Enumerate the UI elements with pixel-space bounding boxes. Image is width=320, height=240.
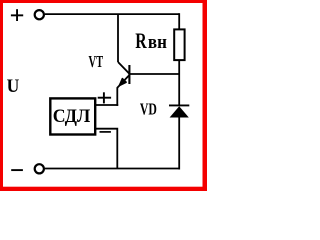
input terminal (-) circle [35,164,44,173]
border frame right [203,0,208,191]
diode VD cathode bar [169,104,189,106]
wire LED module minus lead [94,129,117,169]
LED module box СДЛ [50,98,95,134]
wire collector lead from top rail down [117,14,119,62]
wire right branch bottom: VD anode to bottom rail [178,117,180,170]
minus polarity sign at bottom input terminal [11,169,23,171]
border frame left [0,0,3,191]
wire right branch middle: resistor bottom to VD cathode [178,60,180,105]
svg-text:U: U [7,76,20,97]
plus sign at LED module terminal [98,92,111,103]
border frame bottom [0,187,207,191]
transistor VT collector slant [118,62,129,74]
wire bottom rail from - terminal to right branch [45,168,179,170]
input terminal (+) circle [35,10,44,19]
svg-text:VD: VD [140,99,157,118]
svg-text:СДЛ: СДЛ [53,106,90,127]
wire base lead to R-VD node [129,73,179,75]
border frame top [0,0,207,3]
wire right branch top: corner down to resistor [178,13,180,29]
minus sign at LED module terminal [100,131,111,133]
svg-text:вн: вн [148,32,167,53]
diode VD triangle [170,106,189,117]
wire emitter stub down [116,87,118,106]
wire LED module plus lead [94,104,118,106]
resistor Rвн body [174,29,184,60]
svg-text:R: R [135,28,147,53]
transistor VT emitter slant with arrow [117,75,129,88]
svg-text:VT: VT [89,52,104,71]
plus polarity sign at top input terminal [11,9,23,21]
transistor VT base bar [128,65,130,84]
wire top rail from + terminal to right branch [45,13,179,15]
